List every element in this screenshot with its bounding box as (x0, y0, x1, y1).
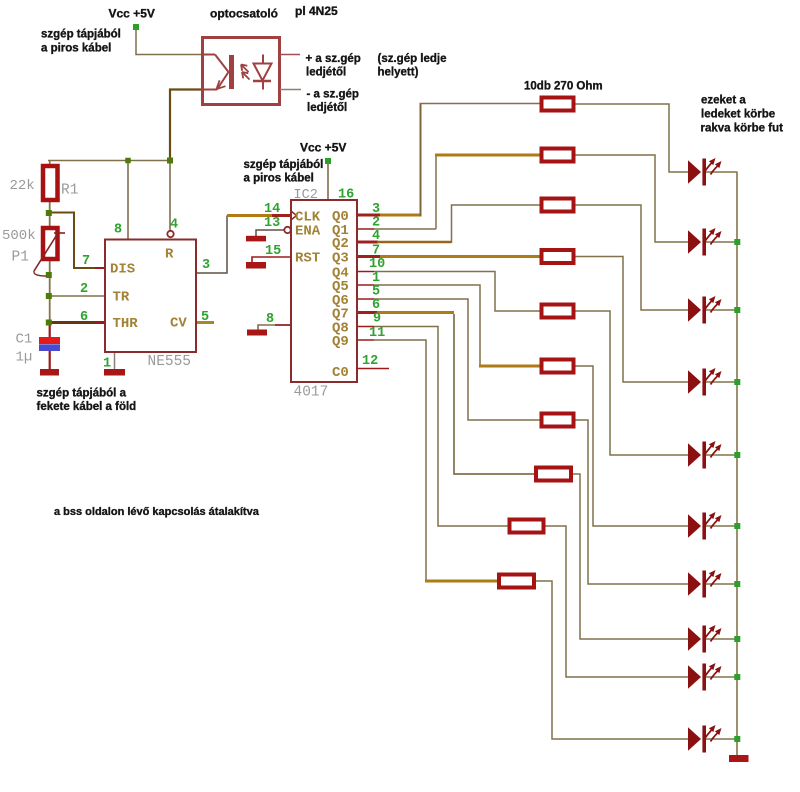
svg-text:22k: 22k (10, 178, 35, 194)
svg-text:3: 3 (202, 258, 210, 273)
svg-text:+ a sz.gép: + a sz.gép (306, 53, 361, 65)
svg-text:CV: CV (170, 316, 187, 332)
svg-text:1µ: 1µ (16, 350, 33, 366)
svg-text:6: 6 (80, 310, 88, 325)
svg-text:ledjétől: ledjétől (306, 67, 346, 79)
svg-text:(sz.gép ledje: (sz.gép ledje (378, 53, 447, 65)
svg-text:15: 15 (265, 244, 281, 259)
svg-text:12: 12 (362, 354, 378, 369)
svg-text:14: 14 (264, 202, 280, 217)
svg-text:Q9: Q9 (332, 334, 349, 350)
svg-text:C1: C1 (16, 332, 33, 348)
svg-text:NE555: NE555 (148, 354, 192, 370)
svg-text:10: 10 (369, 257, 385, 272)
svg-text:9: 9 (373, 312, 381, 327)
svg-text:13: 13 (264, 216, 280, 231)
svg-text:pl 4N25: pl 4N25 (295, 4, 338, 18)
svg-text:a bss oldalon lévő kapcsolás á: a bss oldalon lévő kapcsolás átalakítva (54, 506, 260, 518)
svg-text:fekete kábel a föld: fekete kábel a föld (37, 401, 137, 413)
svg-text:rakva körbe fut: rakva körbe fut (701, 123, 784, 135)
svg-text:- a sz.gép: - a sz.gép (307, 89, 359, 101)
svg-text:DIS: DIS (110, 262, 135, 278)
svg-text:THR: THR (113, 316, 139, 332)
svg-text:4017: 4017 (294, 385, 329, 401)
svg-text:4: 4 (170, 218, 178, 233)
svg-text:Vcc +5V: Vcc +5V (109, 6, 155, 20)
svg-text:2: 2 (80, 282, 88, 297)
svg-text:helyett): helyett) (378, 67, 419, 79)
svg-text:10db 270 Ohm: 10db 270 Ohm (524, 81, 603, 93)
svg-text:R1: R1 (61, 183, 78, 199)
svg-text:a piros kábel: a piros kábel (41, 43, 111, 55)
svg-text:RST: RST (295, 251, 320, 267)
svg-text:7: 7 (82, 254, 90, 269)
svg-text:500k: 500k (2, 228, 36, 244)
svg-text:optocsatoló: optocsatoló (210, 7, 278, 21)
svg-text:a piros kábel: a piros kábel (244, 173, 314, 185)
svg-text:8: 8 (114, 223, 122, 238)
svg-text:szgép tápjából a: szgép tápjából a (37, 388, 127, 400)
svg-text:IC2: IC2 (294, 188, 318, 203)
svg-text:1: 1 (103, 357, 111, 372)
svg-text:szgép tápjából: szgép tápjából (244, 159, 324, 171)
svg-text:szgép tápjából: szgép tápjából (41, 29, 121, 41)
svg-text:5: 5 (201, 310, 209, 325)
svg-text:11: 11 (369, 326, 385, 341)
svg-text:R: R (165, 247, 174, 263)
svg-text:Vcc +5V: Vcc +5V (300, 141, 346, 155)
svg-text:16: 16 (338, 188, 354, 203)
svg-text:ezeket a: ezeket a (701, 95, 746, 107)
svg-text:ledjétől: ledjétől (307, 102, 347, 114)
svg-text:4: 4 (372, 229, 380, 244)
svg-text:ledeket körbe: ledeket körbe (701, 109, 775, 121)
svg-text:C0: C0 (332, 365, 349, 381)
svg-text:TR: TR (113, 290, 130, 306)
svg-text:Q3: Q3 (332, 251, 349, 267)
svg-text:P1: P1 (12, 250, 29, 266)
svg-text:ENA: ENA (295, 224, 321, 240)
svg-text:8: 8 (266, 312, 274, 327)
